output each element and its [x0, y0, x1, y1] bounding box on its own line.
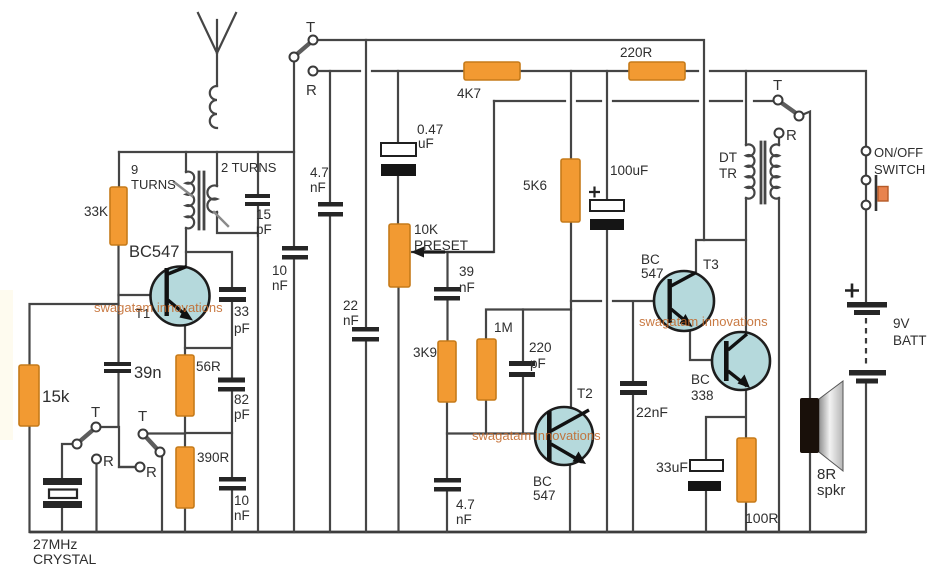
- svg-text:T: T: [91, 404, 100, 421]
- svg-text:8R: 8R: [817, 466, 836, 483]
- svg-text:33uF: 33uF: [656, 459, 688, 475]
- svg-text:CRYSTAL: CRYSTAL: [33, 551, 96, 567]
- svg-text:4K7: 4K7: [457, 86, 481, 101]
- svg-text:56R: 56R: [196, 359, 221, 374]
- svg-text:4.7: 4.7: [310, 165, 329, 180]
- svg-text:10: 10: [272, 263, 287, 278]
- svg-text:15: 15: [256, 207, 271, 222]
- svg-text:390R: 390R: [197, 450, 230, 465]
- svg-text:22nF: 22nF: [636, 404, 668, 420]
- svg-text:39n: 39n: [134, 364, 162, 382]
- svg-text:swagatam innovations: swagatam innovations: [639, 314, 768, 329]
- svg-text:nF: nF: [234, 508, 250, 523]
- svg-text:R: R: [306, 82, 317, 99]
- svg-text:T: T: [773, 77, 782, 94]
- svg-text:22: 22: [343, 298, 358, 313]
- svg-text:BC: BC: [641, 252, 660, 267]
- svg-text:uF: uF: [418, 136, 434, 151]
- svg-text:82: 82: [234, 392, 249, 407]
- svg-text:27MHz: 27MHz: [33, 536, 77, 552]
- svg-text:39: 39: [459, 264, 474, 279]
- svg-text:220: 220: [529, 340, 552, 355]
- svg-text:5K6: 5K6: [523, 178, 547, 193]
- svg-text:nF: nF: [456, 512, 472, 527]
- svg-text:nF: nF: [310, 180, 326, 195]
- svg-text:BC: BC: [533, 474, 552, 489]
- svg-text:T3: T3: [703, 257, 719, 272]
- svg-text:TR: TR: [719, 166, 737, 181]
- svg-text:nF: nF: [343, 313, 359, 328]
- svg-text:15k: 15k: [42, 387, 70, 406]
- svg-text:100uF: 100uF: [610, 163, 648, 178]
- svg-text:T: T: [306, 19, 315, 36]
- svg-text:4.7: 4.7: [456, 497, 475, 512]
- svg-text:pF: pF: [234, 407, 250, 422]
- svg-text:pF: pF: [256, 222, 272, 237]
- svg-text:9V: 9V: [893, 316, 910, 331]
- svg-text:T2: T2: [577, 386, 593, 401]
- svg-text:9: 9: [131, 162, 138, 177]
- svg-text:PRESET: PRESET: [414, 238, 468, 253]
- svg-text:BATT: BATT: [893, 333, 927, 348]
- svg-text:nF: nF: [272, 278, 288, 293]
- svg-text:10K: 10K: [414, 222, 438, 237]
- svg-text:nF: nF: [459, 280, 475, 295]
- svg-text:BC547: BC547: [129, 243, 179, 261]
- svg-text:pF: pF: [530, 356, 546, 371]
- svg-text:100R: 100R: [745, 510, 778, 526]
- svg-text:swagatam innovations: swagatam innovations: [94, 300, 223, 315]
- svg-text:DT: DT: [719, 150, 737, 165]
- svg-text:ON/OFF: ON/OFF: [874, 145, 923, 160]
- svg-text:R: R: [103, 453, 114, 470]
- svg-text:547: 547: [533, 488, 556, 503]
- svg-text:R: R: [146, 464, 157, 481]
- svg-text:BC: BC: [691, 372, 710, 387]
- svg-text:33K: 33K: [84, 204, 108, 219]
- svg-text:220R: 220R: [620, 45, 653, 60]
- svg-text:TURNS: TURNS: [131, 177, 176, 192]
- svg-text:3K9: 3K9: [413, 345, 437, 360]
- svg-text:10: 10: [234, 493, 249, 508]
- svg-text:338: 338: [691, 388, 714, 403]
- svg-text:R: R: [786, 127, 797, 144]
- svg-text:547: 547: [641, 266, 664, 281]
- svg-text:33: 33: [234, 304, 249, 319]
- svg-text:swagatam innovations: swagatam innovations: [472, 428, 601, 443]
- svg-text:1M: 1M: [494, 320, 513, 335]
- svg-text:2 TURNS: 2 TURNS: [221, 160, 277, 175]
- svg-text:T: T: [138, 408, 147, 425]
- svg-text:SWITCH: SWITCH: [874, 162, 925, 177]
- svg-text:pF: pF: [234, 321, 250, 336]
- svg-text:spkr: spkr: [817, 482, 845, 499]
- svg-text:0.47: 0.47: [417, 122, 443, 137]
